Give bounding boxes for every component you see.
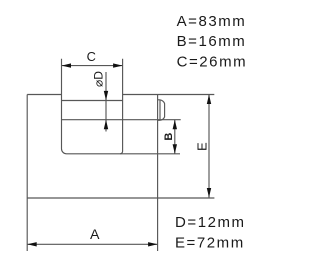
lock body left edge bbox=[26, 95, 28, 252]
arrow C right bbox=[113, 63, 123, 67]
arrow B top bbox=[173, 120, 177, 130]
svg-text:B: B bbox=[163, 133, 175, 141]
arrow B bottom bbox=[173, 144, 177, 154]
arrow C left bbox=[62, 63, 72, 67]
arrow D down bbox=[104, 91, 108, 101]
shackle bar bottom line + B extension line bbox=[62, 119, 181, 121]
shackle slot right side with rounded bottom-right corner bbox=[120, 59, 123, 154]
svg-text:A: A bbox=[90, 227, 100, 243]
arrow E bottom bbox=[207, 188, 211, 198]
shackle slot left side with rounded bottom-left corner bbox=[62, 59, 67, 154]
svg-text:⌀D: ⌀D bbox=[91, 71, 105, 87]
dimension E line bbox=[208, 95, 210, 198]
dimension B line bbox=[174, 120, 176, 154]
body horizontal seam line + E extension line bbox=[27, 197, 214, 199]
shackle slot bottom line + B extension line bbox=[67, 153, 181, 155]
arrow E top bbox=[207, 95, 211, 105]
arrow A left bbox=[27, 242, 37, 246]
shackle bar top line bbox=[62, 100, 123, 102]
svg-text:D=12mm: D=12mm bbox=[175, 214, 246, 231]
lock body top edge left segment bbox=[27, 94, 61, 96]
side tab base line bbox=[159, 100, 161, 121]
svg-text:E: E bbox=[195, 142, 210, 151]
svg-text:C=26mm: C=26mm bbox=[177, 54, 248, 71]
dimension D leader line bbox=[105, 72, 107, 132]
dimension C line bbox=[62, 65, 123, 67]
arrow A right bbox=[148, 242, 158, 246]
lock body right edge bbox=[157, 95, 159, 252]
arrow D up bbox=[104, 120, 108, 130]
lock body top edge right segment + E extension line bbox=[123, 94, 215, 96]
svg-text:C: C bbox=[87, 49, 96, 64]
side tab outline bbox=[158, 100, 165, 121]
dimension A line bbox=[27, 243, 157, 245]
svg-text:A=83mm: A=83mm bbox=[177, 13, 247, 30]
svg-text:B=16mm: B=16mm bbox=[177, 33, 247, 50]
svg-text:E=72mm: E=72mm bbox=[175, 235, 245, 252]
